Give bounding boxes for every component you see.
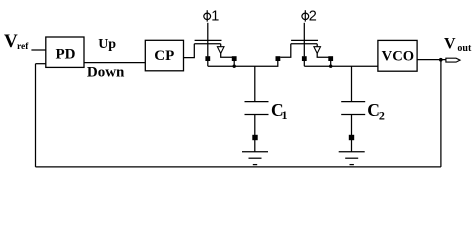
- svg-text:2: 2: [379, 108, 385, 122]
- svg-text:Down: Down: [87, 65, 125, 81]
- svg-text:V: V: [444, 36, 456, 53]
- svg-text:V: V: [4, 31, 18, 52]
- svg-text:PD: PD: [56, 47, 76, 63]
- svg-text:VCO: VCO: [382, 49, 414, 65]
- svg-text:ref: ref: [17, 42, 29, 52]
- svg-text:out: out: [457, 43, 472, 54]
- svg-text:1: 1: [211, 9, 219, 25]
- svg-text:CP: CP: [154, 48, 174, 64]
- svg-text:2: 2: [309, 9, 317, 25]
- svg-text:1: 1: [282, 108, 288, 122]
- svg-text:Up: Up: [98, 37, 116, 52]
